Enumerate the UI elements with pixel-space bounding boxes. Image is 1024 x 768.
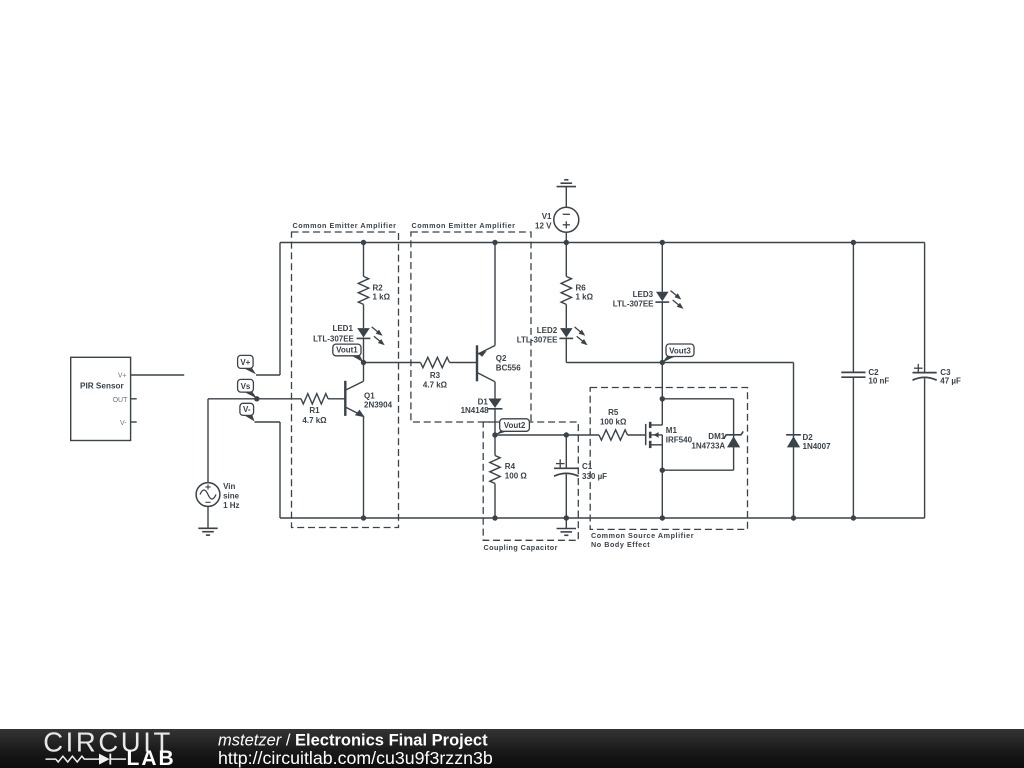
svg-text:1 Hz: 1 Hz <box>223 501 239 510</box>
resistor R6 1 k <box>561 276 594 304</box>
svg-text:R6: R6 <box>576 284 587 293</box>
node Vout3 junction <box>660 360 665 365</box>
wire V1 to top rail <box>565 232 567 242</box>
svg-text:Common Source Amplifier: Common Source Amplifier <box>591 531 694 540</box>
wire V+ flag lead <box>256 374 280 376</box>
svg-text:330 µF: 330 µF <box>582 472 607 481</box>
svg-text:R5: R5 <box>608 408 619 417</box>
svg-text:IRF540: IRF540 <box>666 436 693 445</box>
wire Vin riser <box>207 399 209 483</box>
wire R3 to Q2 base <box>450 362 478 364</box>
svg-text:http://circuitlab.com/cu3u9f3r: http://circuitlab.com/cu3u9f3rzzn3b <box>218 748 493 768</box>
svg-text:100 kΩ: 100 kΩ <box>600 418 627 427</box>
wire left V+ riser <box>279 243 281 376</box>
transistor M1 IRF540 <box>646 422 693 448</box>
resistor R4 100 <box>490 456 528 484</box>
wire Vout1 to R3 <box>364 362 421 364</box>
svg-text:LTL-307EE: LTL-307EE <box>517 336 558 345</box>
node M1 source on bottom rail <box>660 515 665 520</box>
svg-text:OUT: OUT <box>113 397 129 404</box>
svg-text:BC556: BC556 <box>496 364 521 373</box>
svg-text:DM1: DM1 <box>708 432 725 441</box>
svg-text:10 nF: 10 nF <box>868 377 889 386</box>
svg-text:Q2: Q2 <box>496 354 507 363</box>
node LED3 top on top rail <box>660 240 665 245</box>
dashed region box: Coupling Capacitor <box>483 422 578 552</box>
node C2 on top rail <box>851 240 856 245</box>
wire left V- drop <box>279 422 281 518</box>
svg-text:D1: D1 <box>478 397 489 406</box>
svg-text:R2: R2 <box>373 284 384 293</box>
svg-text:Coupling Capacitor: Coupling Capacitor <box>484 543 558 552</box>
svg-text:LTL-307EE: LTL-307EE <box>613 300 654 309</box>
wire DM1 bottom <box>662 469 733 471</box>
node M1 source junction <box>660 468 665 473</box>
svg-text:1N4148: 1N4148 <box>461 406 490 415</box>
wire bottom rail <box>280 517 925 519</box>
svg-text:V-: V- <box>120 420 127 427</box>
svg-text:Vs: Vs <box>241 382 251 391</box>
diode D1 1N4148 <box>461 397 503 415</box>
wire C1 ground stub <box>565 518 567 529</box>
LED LED2 LTL-307EE <box>517 326 588 345</box>
CircuitLab logo resistor-diode squiggle <box>46 756 100 762</box>
svg-text:Common Emitter Amplifier: Common Emitter Amplifier <box>412 221 516 230</box>
net flag Vs <box>238 379 257 398</box>
wire PIR V- pin stub <box>131 421 137 423</box>
wire Vs row <box>208 398 301 400</box>
wire right rail lower <box>924 378 926 518</box>
node C2 on bottom rail <box>851 515 856 520</box>
dashed region box: Common Emitter Amplifier 2 <box>411 221 531 422</box>
net flag Vout3 <box>662 344 694 363</box>
node Q2 emitter on top rail <box>492 240 497 245</box>
svg-text:4.7 kΩ: 4.7 kΩ <box>423 380 448 389</box>
wire Vin to ground <box>207 506 209 528</box>
wire top rail <box>280 242 925 244</box>
wire Vout3 to D2 corner <box>662 362 793 364</box>
node D2 on bottom rail <box>791 515 796 520</box>
svg-text:Common Emitter Amplifier: Common Emitter Amplifier <box>293 221 397 230</box>
wire R5 to M1 gate <box>628 434 646 436</box>
svg-text:sine: sine <box>223 491 240 500</box>
wire D1 to Vout2 node <box>494 408 496 435</box>
wire C1 tap drop <box>565 435 567 468</box>
svg-text:PIR Sensor: PIR Sensor <box>80 382 124 391</box>
wire LED3 to Vout3 node <box>661 301 663 362</box>
svg-text:LED3: LED3 <box>633 290 654 299</box>
svg-text:1N4007: 1N4007 <box>803 442 832 451</box>
wire R4 to bottom rail <box>494 484 496 519</box>
svg-text:100 Ω: 100 Ω <box>505 472 528 481</box>
resistor R1 4.7 k <box>301 394 328 425</box>
dashed region box: Common Emitter Amplifier 1 <box>292 221 399 528</box>
transistor Q1 2N3904 <box>345 381 392 417</box>
svg-text:1N4733A: 1N4733A <box>691 442 725 451</box>
wire Vout2 to R5 <box>495 434 599 436</box>
svg-text:12 V: 12 V <box>535 221 552 230</box>
wire top rail to R2 <box>363 243 365 277</box>
wire D2 drop <box>793 363 795 519</box>
wire PIR OUT pin stub <box>131 398 137 400</box>
wire R2 to LED1 <box>363 304 365 328</box>
svg-text:Vout3: Vout3 <box>669 346 691 355</box>
capacitor C2 10 nF <box>841 368 889 386</box>
svg-text:D2: D2 <box>803 433 814 442</box>
svg-text:Vout2: Vout2 <box>504 421 526 430</box>
LED LED1 LTL-307EE <box>313 324 385 345</box>
svg-text:LAB: LAB <box>127 747 176 768</box>
LED LED3 LTL-307EE <box>613 290 684 309</box>
node Vout2 junction <box>492 432 497 437</box>
wire DM1 drop <box>733 399 735 470</box>
capacitor C1 330 uF <box>554 459 607 481</box>
svg-text:1 kΩ: 1 kΩ <box>373 292 391 301</box>
svg-text:No Body Effect: No Body Effect <box>591 540 650 549</box>
footer bar <box>0 729 1024 768</box>
wire R6 to LED2 <box>565 304 567 328</box>
svg-text:R3: R3 <box>430 371 441 380</box>
svg-text:M1: M1 <box>666 426 678 435</box>
PIR sensor module SENSOR1 <box>71 357 131 440</box>
diode D2 1N4007 <box>786 433 831 451</box>
transistor Q2 BC556 <box>477 345 521 381</box>
capacitor C3 47 uF <box>913 364 962 386</box>
voltage source Vin (sine 1 Hz) <box>196 482 240 510</box>
node Vout1 junction <box>361 360 366 365</box>
wire LED2 corner to Vout3 <box>566 362 662 364</box>
wire ground to V1 <box>565 187 567 208</box>
svg-text:V+: V+ <box>118 373 127 380</box>
node C1 on bottom rail <box>564 515 569 520</box>
svg-text:LED2: LED2 <box>537 326 558 335</box>
wire C2 to bottom rail <box>852 377 854 518</box>
node M1 drain junction <box>660 396 665 401</box>
wire Q2 emitter riser <box>494 243 496 346</box>
svg-text:R1: R1 <box>309 406 320 415</box>
resistor R2 1 k <box>358 276 390 304</box>
wire LED2 to corner <box>565 338 567 363</box>
svg-text:LTL-307EE: LTL-307EE <box>313 335 354 344</box>
svg-text:V+: V+ <box>240 358 250 367</box>
net flag V- <box>240 403 255 421</box>
svg-text:LED1: LED1 <box>332 324 353 333</box>
ground below Vin <box>198 528 217 535</box>
wire DM1 top <box>662 398 733 400</box>
net flag Vout1 <box>333 344 364 362</box>
svg-text:Vout1: Vout1 <box>336 346 358 355</box>
zener diode DM1 1N4733A <box>691 431 743 450</box>
svg-text:R4: R4 <box>505 462 516 471</box>
svg-text:C1: C1 <box>582 462 593 471</box>
wire Q1 emitter drop <box>363 416 365 518</box>
wire top rail to R6 <box>565 243 567 277</box>
wire V- flag lead <box>255 421 281 423</box>
resistor R3 4.7 k <box>421 357 450 389</box>
voltage source V1 12 V <box>535 207 579 232</box>
wire drain node to M1 <box>661 399 663 425</box>
wire right rail upper <box>924 243 926 373</box>
net flag Vout2 <box>495 419 529 435</box>
wire LED1 to Vout1 node <box>363 338 365 363</box>
svg-text:47 µF: 47 µF <box>940 377 961 386</box>
net flag V+ <box>238 355 256 374</box>
node Q1 emitter on bottom rail <box>361 515 366 520</box>
node R2 top on top rail <box>361 240 366 245</box>
ground below C1 <box>557 529 576 536</box>
resistor R5 100 k <box>599 408 628 440</box>
node R4 on bottom rail <box>492 515 497 520</box>
wire Vout2 to R4 <box>494 435 496 456</box>
wire top rail to C2 <box>852 243 854 373</box>
wire Vout3 to drain node <box>661 363 663 399</box>
wire R1 to Q1 base <box>328 398 345 400</box>
svg-text:2N3904: 2N3904 <box>364 400 393 409</box>
node V1 on top rail <box>564 240 569 245</box>
svg-text:Q1: Q1 <box>364 392 375 401</box>
svg-text:Vin: Vin <box>223 482 235 491</box>
wire C1 to bottom rail <box>565 474 567 518</box>
wire PIR V+ pin stub <box>131 374 185 376</box>
svg-text:1 kΩ: 1 kΩ <box>576 292 594 301</box>
svg-text:V-: V- <box>243 405 251 414</box>
wire Q1 collector riser <box>363 363 365 382</box>
svg-text:V1: V1 <box>542 212 552 221</box>
node C1 tap junction <box>564 432 569 437</box>
dashed region box: Common Source Amplifier / No Body Effect <box>590 388 747 550</box>
svg-text:4.7 kΩ: 4.7 kΩ <box>302 416 327 425</box>
ground above V1 <box>557 180 576 187</box>
wire Q2 collector to D1 <box>494 382 496 399</box>
node Vs junction <box>254 396 259 401</box>
wire M1 source drop <box>661 445 663 518</box>
wire top rail to LED3 <box>661 243 663 292</box>
